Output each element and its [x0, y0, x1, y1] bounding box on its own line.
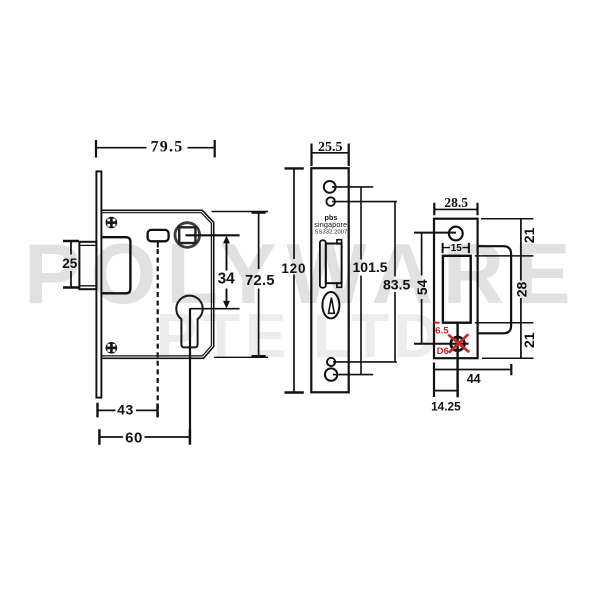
stop slot	[148, 230, 169, 241]
dimension 44	[434, 363, 511, 398]
svg-text:72.5: 72.5	[245, 273, 275, 289]
svg-text:SS332:2007: SS332:2007	[315, 229, 348, 235]
svg-text:PTE LTD: PTE LTD	[156, 302, 443, 371]
strike plate	[434, 219, 478, 359]
svg-text:25.5: 25.5	[318, 140, 343, 155]
dimension 83.5	[394, 202, 396, 362]
dimension 25	[63, 241, 79, 288]
svg-text:15: 15	[451, 243, 463, 254]
svg-text:25: 25	[62, 256, 78, 271]
screw bottom	[106, 342, 118, 354]
latch bolt outer	[79, 242, 96, 289]
keyhole center vertical line	[189, 308, 191, 444]
dashed center line	[157, 249, 159, 417]
latch window frame	[326, 244, 342, 284]
svg-text:28.5: 28.5	[444, 195, 468, 210]
bottom big hole	[325, 368, 337, 380]
D6 hole	[451, 337, 465, 351]
top big hole	[324, 181, 336, 193]
hub leader line	[186, 234, 240, 236]
top hole	[449, 227, 463, 241]
svg-text:D6: D6	[437, 346, 449, 357]
dimension 34	[226, 243, 228, 302]
latch window left bar	[320, 240, 326, 287]
dimension 43	[98, 403, 158, 418]
follower hub square	[179, 227, 195, 243]
svg-text:14.25: 14.25	[431, 400, 461, 414]
extension lines right	[475, 219, 534, 359]
svg-text:54: 54	[414, 279, 430, 295]
screw top	[106, 217, 118, 229]
svg-text:120: 120	[281, 261, 306, 276]
lock body outline outer	[101, 210, 213, 358]
svg-text:43: 43	[117, 402, 134, 418]
svg-text:28: 28	[514, 282, 530, 298]
dimension 28.5	[434, 203, 477, 216]
dimension 79.5	[96, 140, 215, 158]
red X over D6 hole	[448, 334, 469, 352]
leader to top hole	[414, 232, 456, 234]
svg-text:101.5: 101.5	[353, 259, 388, 275]
latch bolt inner	[101, 237, 130, 293]
strike plate tab	[478, 246, 512, 333]
keyway triangle	[329, 298, 335, 314]
dimension 60	[99, 429, 189, 445]
svg-text:44: 44	[467, 372, 481, 386]
dimension 120	[285, 168, 304, 392]
faceplate front view	[311, 168, 348, 392]
red mark 6.5	[434, 322, 440, 324]
dimension 14.25	[434, 385, 458, 397]
keyhole leader line	[190, 308, 240, 310]
follower hub circle	[175, 223, 200, 248]
svg-text:60: 60	[125, 429, 143, 446]
lock body outline inner	[101, 213, 211, 356]
latch window right tabs	[337, 240, 342, 244]
D6 hole centerlines	[456, 323, 458, 398]
keyway oval	[322, 292, 339, 318]
right dimension line	[520, 219, 522, 359]
dimension 25.5	[312, 144, 349, 167]
dimension 72.5	[212, 212, 269, 358]
hole leader lines	[332, 187, 397, 375]
dimension 54	[421, 233, 423, 344]
svg-text:21: 21	[521, 332, 537, 348]
cylinder keyhole	[176, 296, 202, 348]
bottom small hole	[327, 358, 335, 366]
svg-text:21: 21	[521, 227, 537, 243]
svg-text:singapore: singapore	[314, 220, 347, 229]
svg-text:79.5: 79.5	[151, 139, 184, 156]
svg-text:34: 34	[218, 271, 236, 288]
svg-text:6.5: 6.5	[435, 326, 449, 337]
faceplate side view	[96, 171, 101, 397]
svg-text:83.5: 83.5	[383, 277, 410, 293]
top small hole	[326, 197, 335, 206]
latch opening	[443, 256, 471, 323]
dimension 15	[443, 243, 469, 253]
dimension 101.5	[360, 187, 362, 375]
